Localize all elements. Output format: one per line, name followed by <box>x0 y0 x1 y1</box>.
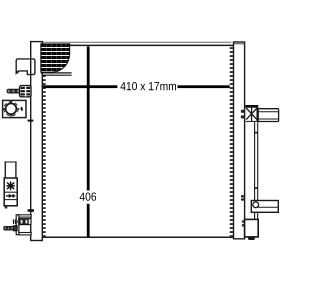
drier bottom nub <box>248 237 255 240</box>
upper pipe inner line 2 <box>258 118 278 120</box>
left core fin ticks <box>42 47 45 236</box>
upper fitting bracket bar 2 <box>241 115 245 118</box>
upper fitting bracket bar 1 <box>241 110 245 113</box>
lower pipe body <box>251 201 278 213</box>
inlet bolt shaft <box>7 89 20 93</box>
fin block lower line 1 <box>41 72 72 74</box>
outlet coupling body <box>19 219 31 225</box>
lens tick right <box>18 108 20 110</box>
upper fitting bottom line <box>246 120 258 122</box>
receiver drier tube left wall <box>254 122 256 220</box>
outlet bracket left plate <box>16 215 19 235</box>
coupling tick 2 <box>15 219 16 224</box>
arrow symbol head <box>9 194 13 198</box>
lens tick bottom <box>10 115 12 117</box>
label plate divider 1 <box>4 191 17 193</box>
flange column gap <box>25 87 27 97</box>
dimension horizontal line left segment <box>43 85 117 88</box>
sight glass lens <box>6 103 17 114</box>
outlet bracket bottom arm <box>19 233 31 235</box>
dimension label 410 x 17mm <box>120 82 176 90</box>
label plate divider 2 <box>4 199 17 201</box>
upper pipe inner line 1 <box>258 111 278 113</box>
arrow symbol tail bar <box>13 194 15 197</box>
left tank <box>31 42 43 241</box>
outlet bracket top arm <box>19 215 31 217</box>
mounting bracket top-left <box>16 59 35 75</box>
dimension vertical line upper segment <box>87 46 90 190</box>
flange row 1 <box>21 87 30 89</box>
outlet bolt shaft <box>4 227 14 230</box>
outlet bolt segment 2 <box>9 227 11 230</box>
top edge thin upper line <box>31 41 231 43</box>
outlet bolt nut <box>13 226 17 231</box>
bracket corner dot <box>16 71 19 74</box>
fin block vertical slits <box>47 44 67 72</box>
right tank <box>234 42 245 239</box>
upper pipe <box>258 109 278 122</box>
coupling nut 2 <box>25 219 28 224</box>
label plate post right <box>15 161 17 178</box>
label plate lower mark <box>5 207 8 209</box>
sight glass dashed ring <box>4 102 18 116</box>
dimension horizontal line right segment <box>178 85 230 88</box>
tank mounting tab upper <box>28 120 34 122</box>
flange row 3 <box>21 93 30 95</box>
condenser fin block top-left <box>41 44 70 72</box>
arrow symbol line <box>6 195 16 197</box>
lower pipe flange circle <box>253 202 259 208</box>
snowflake symbol <box>6 181 14 190</box>
dimension label 406 <box>80 192 96 200</box>
lower fitting bracket bar 1 <box>241 195 245 197</box>
sight glass comma mark <box>20 107 23 111</box>
core top edge <box>42 44 234 46</box>
lower fitting bracket bar 2 <box>241 198 245 200</box>
coupling nut 1 <box>20 219 23 224</box>
label plate post top bar <box>5 161 17 163</box>
upper fitting side bar <box>256 105 258 122</box>
dimension vertical line lower segment <box>87 204 90 237</box>
upper fitting X brace <box>246 108 257 122</box>
receiver drier tube right wall <box>257 122 259 220</box>
core bottom edge <box>42 236 234 238</box>
label plate post left <box>4 161 6 178</box>
lens tick top <box>10 101 12 103</box>
coupling tick 1 <box>13 219 14 224</box>
bolt shaft segment 2 <box>14 90 17 93</box>
tube joint upper <box>254 132 257 134</box>
drier bottom block bracket bar 1 <box>242 220 245 222</box>
upper fitting top bar <box>245 105 258 108</box>
lens tick left <box>3 108 5 110</box>
right tank top cap line <box>234 43 245 45</box>
fin block lower line 2 <box>42 74 72 76</box>
tube joint lower <box>254 187 257 189</box>
right core fin ticks <box>230 47 234 236</box>
label plate body <box>4 178 17 206</box>
tank mounting tab lower <box>28 209 34 212</box>
flange row 2 <box>21 90 30 92</box>
coupling stub <box>16 220 19 223</box>
drier bottom block bracket bar 2 <box>242 224 245 226</box>
outlet bolt segment 1 <box>6 227 8 230</box>
sight glass housing <box>3 100 26 117</box>
lower pipe inner line <box>257 206 278 208</box>
drier bottom block <box>245 219 259 237</box>
bolt shaft segment 1 <box>10 90 13 93</box>
inlet flange block <box>20 86 31 97</box>
